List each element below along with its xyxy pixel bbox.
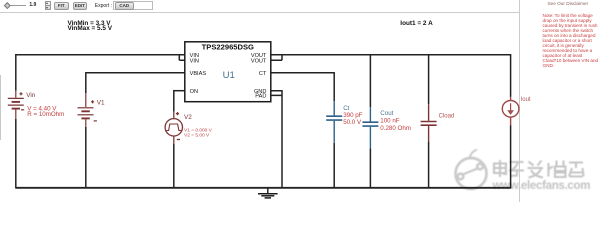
- capacitor Cout: [362, 107, 378, 148]
- svg-text:PAD: PAD: [255, 94, 266, 100]
- svg-text:R = 10mOhm: R = 10mOhm: [27, 111, 64, 118]
- wire: VBIAS net: [86, 72, 185, 74]
- wire: VOUT pin bracket: [271, 54, 282, 60]
- annotation VinMin/VinMax: [68, 21, 112, 33]
- wire: Cout branch: [369, 54, 371, 189]
- svg-text:V1: V1: [97, 100, 105, 107]
- wire: Iout branch: [510, 54, 512, 189]
- wire: V2 branch vertical top: [173, 90, 175, 112]
- battery Vin: [8, 91, 24, 119]
- svg-text:50.0 V: 50.0 V: [343, 119, 362, 126]
- wire: GND/PAD bracket: [271, 90, 282, 189]
- annotation Iout1: [400, 20, 433, 27]
- wire: VOUT net (top right rail): [282, 54, 511, 56]
- watermark CJK text 电子发烧友: [494, 160, 584, 178]
- wire: Cload branch: [428, 54, 430, 189]
- toolbar spinner: [45, 1, 51, 10]
- ground: [258, 189, 278, 198]
- svg-text:www.elecfans.com: www.elecfans.com: [492, 180, 591, 192]
- svg-text:VIN: VIN: [190, 58, 199, 64]
- svg-text:TPS22965DSG: TPS22965DSG: [202, 43, 254, 52]
- svg-text:ON: ON: [190, 89, 198, 95]
- capacitor Ct: [326, 101, 342, 143]
- sidebar note text: [543, 13, 599, 69]
- toolbar EDIT button: [73, 2, 88, 10]
- svg-text:VBIAS: VBIAS: [190, 71, 207, 77]
- toolbar slider track: [7, 5, 26, 6]
- toolbar slider thumb: [4, 2, 10, 8]
- svg-text:V2: V2: [184, 114, 192, 121]
- wire: V1 branch vertical top: [85, 72, 87, 93]
- op-amp U1 (IC TPS22965DSG box): [185, 42, 271, 102]
- svg-text:VOUT: VOUT: [251, 58, 267, 64]
- svg-text:U1: U1: [223, 70, 235, 81]
- wire: V1 branch vertical bottom: [85, 127, 87, 189]
- wire: VIN pin bracket: [179, 54, 185, 60]
- wire: Vin branch vertical bottom: [15, 119, 17, 189]
- svg-text:100 nF: 100 nF: [380, 118, 399, 125]
- svg-text:390 pF: 390 pF: [343, 112, 362, 119]
- wire: Vin branch vertical top: [15, 54, 17, 91]
- svg-text:CT: CT: [259, 71, 267, 77]
- wire: Ct branch lower: [333, 143, 335, 189]
- watermark logo circle: [456, 150, 487, 190]
- toolbar separator: [0, 12, 519, 13]
- toolbar Export label: [95, 3, 112, 9]
- toolbar CAD button: [115, 2, 134, 10]
- wire: V2 branch vertical bottom: [173, 144, 175, 189]
- svg-text:Vin: Vin: [26, 92, 36, 99]
- canvas left edge artifact: [0, 75, 2, 140]
- svg-text:Iout: Iout: [521, 97, 531, 103]
- svg-text:Cout: Cout: [380, 110, 393, 117]
- toolbar FIT button: [54, 2, 69, 10]
- current source Iout: [502, 97, 519, 125]
- svg-text:Cload: Cload: [439, 113, 455, 119]
- wire: ON net: [174, 90, 185, 92]
- wire: ground rail (bottom): [16, 187, 511, 189]
- wire: main VIN net (top left rail): [16, 54, 511, 189]
- capacitor Cload: [421, 104, 437, 141]
- battery V1: [78, 93, 97, 127]
- wire: CT net: [271, 72, 334, 101]
- toolbar zoom value 1.9: [29, 2, 36, 8]
- svg-text:0.280 Ohm: 0.280 Ohm: [380, 125, 411, 132]
- svg-text:V2 = 5.00 V: V2 = 5.00 V: [184, 132, 210, 138]
- sidebar divider: [519, 0, 520, 202]
- source V2 (pulse): [165, 112, 182, 144]
- sidebar disclaimer link: [548, 1, 589, 6]
- toolbar export input: [113, 1, 153, 10]
